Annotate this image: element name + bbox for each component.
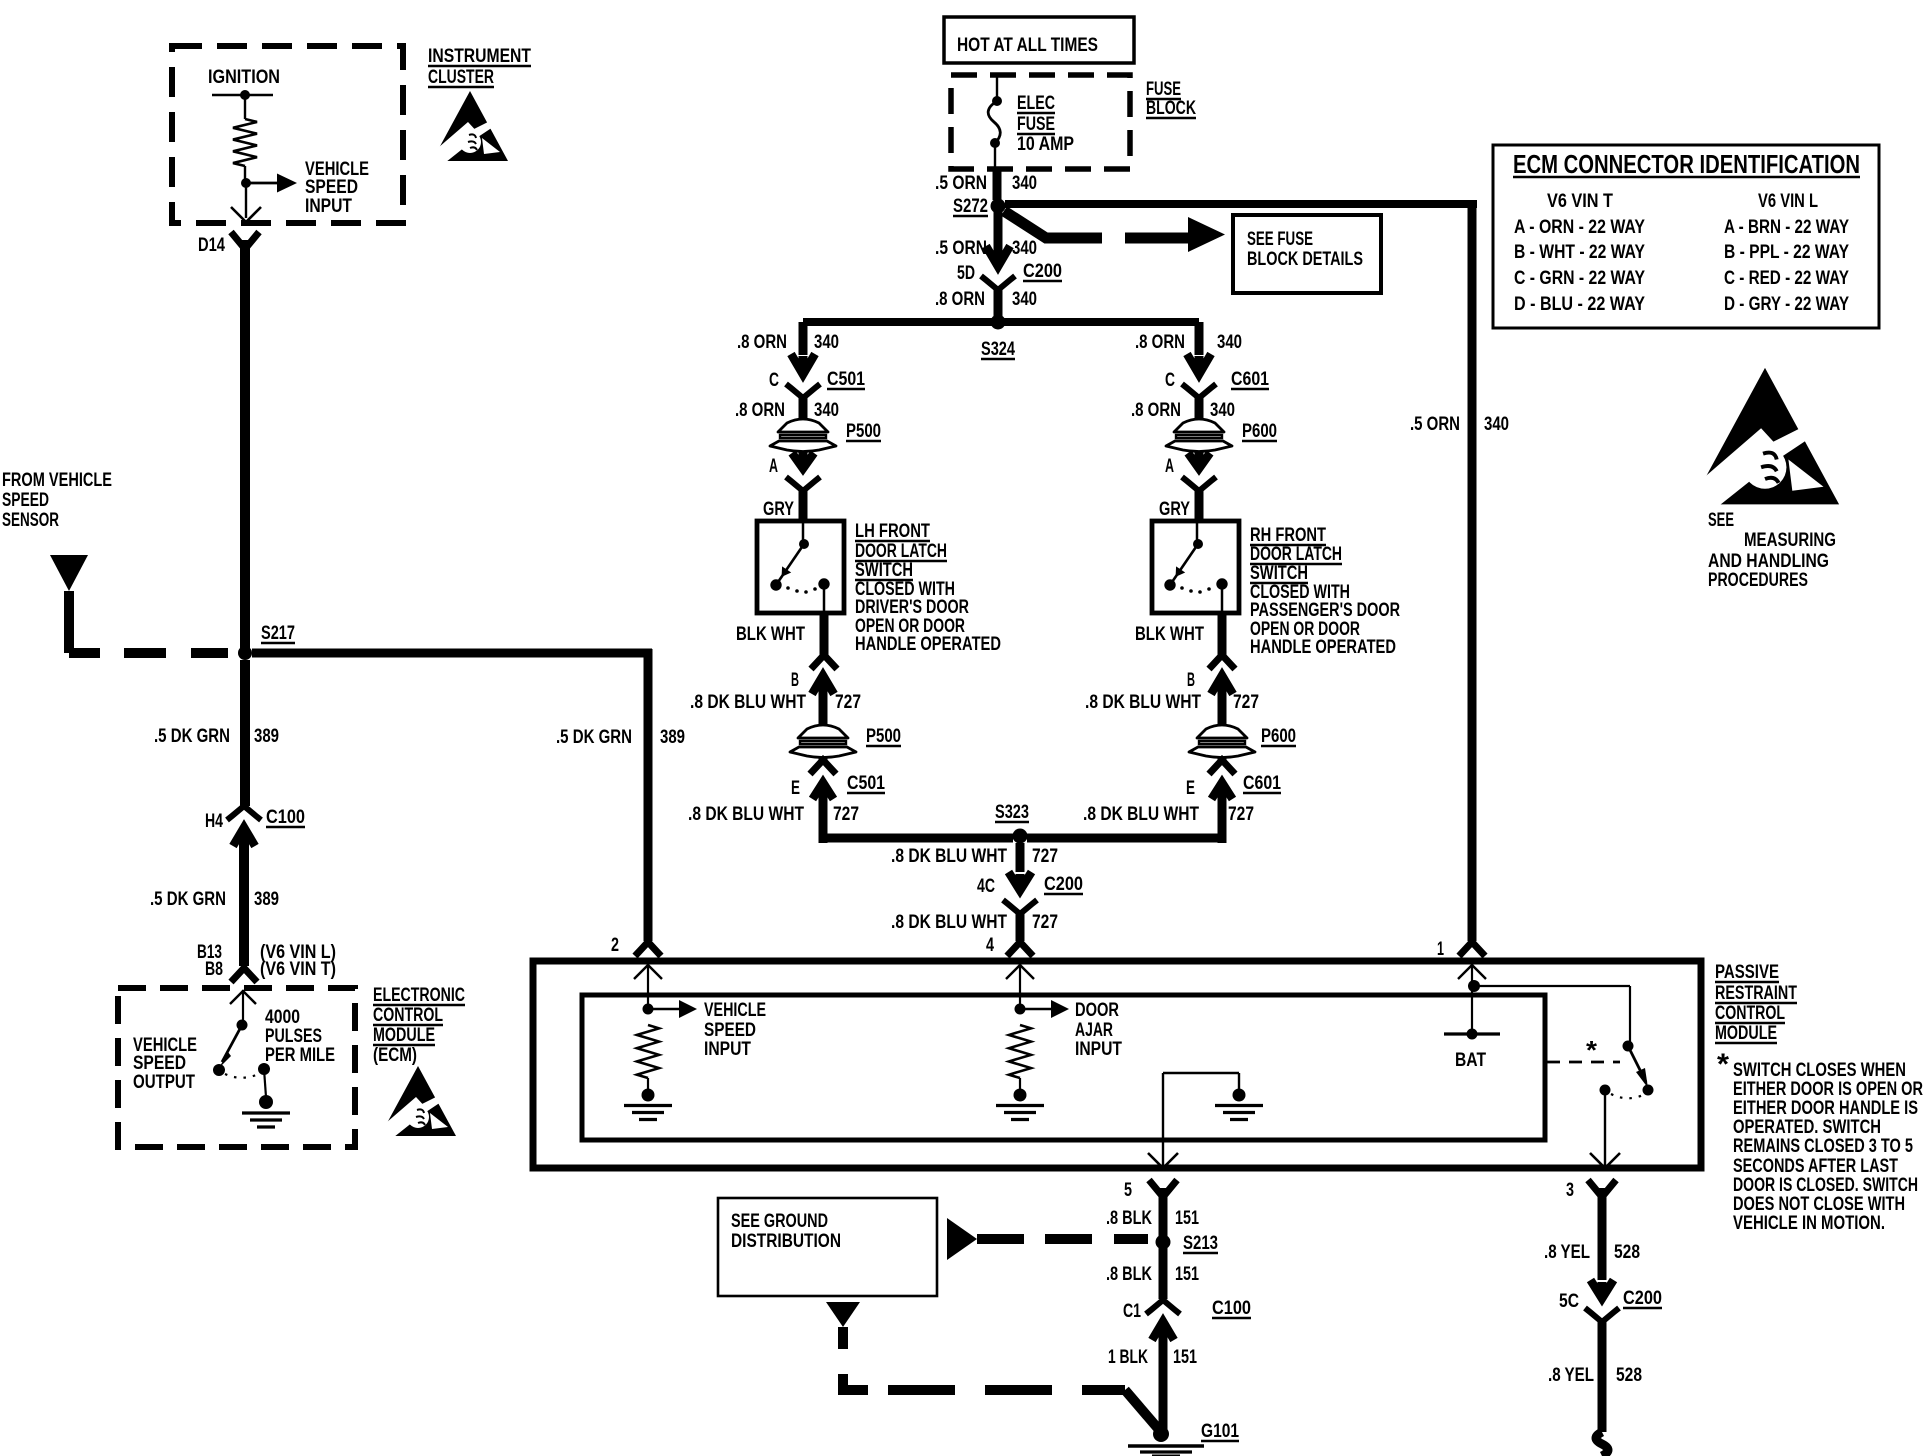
svg-text:PASSENGER'S DOOR: PASSENGER'S DOOR bbox=[1250, 600, 1400, 621]
svg-text:DOES NOT CLOSE WITH: DOES NOT CLOSE WITH bbox=[1733, 1194, 1905, 1215]
svg-text:GRY: GRY bbox=[763, 499, 794, 520]
svg-text:V6 VIN T: V6 VIN T bbox=[1547, 191, 1613, 212]
svg-text:BLOCK: BLOCK bbox=[1146, 98, 1196, 119]
svg-text:IGNITION: IGNITION bbox=[208, 67, 280, 88]
svg-text:C: C bbox=[1165, 370, 1175, 391]
svg-text:SEE: SEE bbox=[1708, 510, 1734, 531]
svg-text:FROM VEHICLE: FROM VEHICLE bbox=[2, 470, 112, 491]
svg-text:EITHER DOOR IS OPEN OR: EITHER DOOR IS OPEN OR bbox=[1733, 1079, 1923, 1100]
svg-text:LH FRONT: LH FRONT bbox=[855, 521, 930, 542]
svg-text:.5 ORN: .5 ORN bbox=[935, 238, 987, 259]
svg-text:P500: P500 bbox=[846, 421, 881, 442]
svg-text:ELECTRONIC: ELECTRONIC bbox=[373, 985, 465, 1006]
svg-text:DOOR IS CLOSED. SWITCH: DOOR IS CLOSED. SWITCH bbox=[1733, 1175, 1918, 1196]
svg-text:1 BLK: 1 BLK bbox=[1108, 1347, 1148, 1368]
svg-text:.8 ORN: .8 ORN bbox=[737, 332, 787, 353]
svg-text:389: 389 bbox=[254, 726, 279, 747]
svg-text:10 AMP: 10 AMP bbox=[1017, 134, 1074, 155]
svg-text:5D: 5D bbox=[957, 263, 975, 284]
svg-text:727: 727 bbox=[1032, 846, 1058, 867]
svg-text:5C: 5C bbox=[1559, 1291, 1579, 1312]
svg-text:C200: C200 bbox=[1044, 874, 1083, 895]
svg-text:SEE GROUND: SEE GROUND bbox=[731, 1211, 828, 1232]
svg-text:S217: S217 bbox=[261, 623, 295, 644]
svg-text:SPEED: SPEED bbox=[2, 490, 49, 511]
svg-text:727: 727 bbox=[833, 804, 859, 825]
svg-text:FUSE: FUSE bbox=[1146, 79, 1181, 100]
svg-text:DRIVER'S DOOR: DRIVER'S DOOR bbox=[855, 597, 969, 618]
svg-text:389: 389 bbox=[254, 889, 279, 910]
svg-text:SECONDS AFTER LAST: SECONDS AFTER LAST bbox=[1733, 1156, 1898, 1177]
svg-text:S323: S323 bbox=[995, 802, 1029, 823]
svg-text:EITHER DOOR HANDLE IS: EITHER DOOR HANDLE IS bbox=[1733, 1098, 1918, 1119]
svg-text:INPUT: INPUT bbox=[305, 196, 352, 217]
svg-text:.8 ORN: .8 ORN bbox=[1135, 332, 1185, 353]
svg-text:C200: C200 bbox=[1023, 261, 1062, 282]
svg-text:DOOR: DOOR bbox=[1075, 1000, 1119, 1021]
svg-text:A - BRN - 22 WAY: A - BRN - 22 WAY bbox=[1724, 217, 1849, 238]
svg-text:(V6 VIN T): (V6 VIN T) bbox=[260, 959, 336, 980]
svg-text:C - RED - 22 WAY: C - RED - 22 WAY bbox=[1724, 268, 1849, 289]
svg-text:340: 340 bbox=[1012, 289, 1037, 310]
svg-text:.5 DK GRN: .5 DK GRN bbox=[150, 889, 226, 910]
svg-text:E: E bbox=[1186, 778, 1195, 799]
svg-text:.8 YEL: .8 YEL bbox=[1544, 1242, 1590, 1263]
svg-text:HANDLE OPERATED: HANDLE OPERATED bbox=[855, 634, 1001, 655]
svg-text:.8 DK BLU WHT: .8 DK BLU WHT bbox=[1085, 692, 1201, 713]
svg-text:FUSE: FUSE bbox=[1017, 114, 1055, 135]
svg-text:.8 DK BLU WHT: .8 DK BLU WHT bbox=[891, 846, 1007, 867]
svg-text:SPEED: SPEED bbox=[704, 1020, 756, 1041]
svg-text:PULSES: PULSES bbox=[265, 1026, 322, 1047]
svg-text:SPEED: SPEED bbox=[305, 177, 358, 198]
svg-text:C - GRN - 22 WAY: C - GRN - 22 WAY bbox=[1514, 268, 1645, 289]
svg-text:.8 YEL: .8 YEL bbox=[1548, 1365, 1594, 1386]
svg-text:727: 727 bbox=[1032, 912, 1058, 933]
svg-text:RESTRAINT: RESTRAINT bbox=[1715, 983, 1797, 1004]
svg-text:SENSOR: SENSOR bbox=[2, 510, 59, 531]
svg-text:SWITCH: SWITCH bbox=[855, 560, 913, 581]
svg-text:VEHICLE IN MOTION.: VEHICLE IN MOTION. bbox=[1733, 1213, 1885, 1234]
svg-text:BLK WHT: BLK WHT bbox=[736, 624, 805, 645]
svg-text:ECM CONNECTOR IDENTIFICATION: ECM CONNECTOR IDENTIFICATION bbox=[1513, 149, 1860, 179]
svg-text:C100: C100 bbox=[266, 807, 305, 828]
svg-text:B: B bbox=[791, 670, 799, 691]
svg-text:C601: C601 bbox=[1231, 369, 1269, 390]
svg-text:C: C bbox=[769, 370, 779, 391]
svg-text:B - WHT - 22 WAY: B - WHT - 22 WAY bbox=[1514, 242, 1645, 263]
svg-text:340: 340 bbox=[814, 332, 839, 353]
svg-text:4: 4 bbox=[986, 935, 994, 956]
svg-text:D - GRY - 22 WAY: D - GRY - 22 WAY bbox=[1724, 294, 1849, 315]
svg-text:BLOCK DETAILS: BLOCK DETAILS bbox=[1247, 249, 1363, 270]
svg-text:4C: 4C bbox=[977, 876, 995, 897]
svg-text:5: 5 bbox=[1124, 1180, 1132, 1201]
svg-text:727: 727 bbox=[1233, 692, 1259, 713]
svg-text:528: 528 bbox=[1616, 1365, 1642, 1386]
svg-text:A - ORN - 22 WAY: A - ORN - 22 WAY bbox=[1514, 217, 1645, 238]
svg-text:.8 ORN: .8 ORN bbox=[735, 400, 785, 421]
svg-text:MODULE: MODULE bbox=[373, 1025, 435, 1046]
svg-text:.8 DK BLU WHT: .8 DK BLU WHT bbox=[891, 912, 1007, 933]
svg-text:VEHICLE: VEHICLE bbox=[704, 1000, 766, 1021]
svg-text:D14: D14 bbox=[198, 235, 225, 256]
svg-text:389: 389 bbox=[660, 727, 685, 748]
svg-text:AJAR: AJAR bbox=[1075, 1020, 1113, 1041]
svg-text:.5 DK GRN: .5 DK GRN bbox=[556, 727, 632, 748]
svg-text:S324: S324 bbox=[981, 339, 1015, 360]
svg-text:A: A bbox=[1165, 456, 1174, 477]
svg-text:727: 727 bbox=[1228, 804, 1254, 825]
svg-text:.5 DK GRN: .5 DK GRN bbox=[154, 726, 230, 747]
svg-text:B - PPL - 22 WAY: B - PPL - 22 WAY bbox=[1724, 242, 1849, 263]
svg-text:.8 BLK: .8 BLK bbox=[1106, 1264, 1152, 1285]
svg-text:SPEED: SPEED bbox=[133, 1053, 186, 1074]
svg-text:C501: C501 bbox=[827, 369, 865, 390]
svg-text:2: 2 bbox=[611, 935, 619, 956]
svg-text:*: * bbox=[1717, 1048, 1729, 1081]
svg-text:DISTRIBUTION: DISTRIBUTION bbox=[731, 1231, 841, 1252]
svg-text:151: 151 bbox=[1175, 1264, 1199, 1285]
svg-text:.8 BLK: .8 BLK bbox=[1106, 1208, 1152, 1229]
svg-text:HANDLE OPERATED: HANDLE OPERATED bbox=[1250, 637, 1396, 658]
svg-text:.8 DK BLU WHT: .8 DK BLU WHT bbox=[690, 692, 806, 713]
svg-text:.5 ORN: .5 ORN bbox=[935, 173, 987, 194]
svg-text:DOOR LATCH: DOOR LATCH bbox=[855, 541, 947, 562]
svg-text:151: 151 bbox=[1175, 1208, 1199, 1229]
svg-text:V6 VIN L: V6 VIN L bbox=[1758, 191, 1818, 212]
svg-text:C1: C1 bbox=[1123, 1301, 1141, 1322]
svg-text:.8 DK BLU WHT: .8 DK BLU WHT bbox=[688, 804, 804, 825]
svg-text:CONTROL: CONTROL bbox=[373, 1005, 443, 1026]
svg-text:D - BLU - 22 WAY: D - BLU - 22 WAY bbox=[1514, 294, 1645, 315]
svg-text:RH FRONT: RH FRONT bbox=[1250, 525, 1326, 546]
svg-text:OPERATED. SWITCH: OPERATED. SWITCH bbox=[1733, 1117, 1881, 1138]
svg-text:H4: H4 bbox=[205, 811, 223, 832]
svg-text:HOT AT ALL TIMES: HOT AT ALL TIMES bbox=[957, 35, 1098, 56]
svg-text:AND HANDLING: AND HANDLING bbox=[1708, 551, 1829, 572]
svg-text:SEE FUSE: SEE FUSE bbox=[1247, 229, 1313, 250]
svg-text:.8 ORN: .8 ORN bbox=[935, 289, 985, 310]
svg-text:727: 727 bbox=[835, 692, 861, 713]
svg-text:E: E bbox=[791, 778, 800, 799]
svg-text:P600: P600 bbox=[1261, 726, 1296, 747]
svg-text:P600: P600 bbox=[1242, 421, 1277, 442]
svg-text:3: 3 bbox=[1566, 1180, 1574, 1201]
svg-text:C501: C501 bbox=[847, 773, 885, 794]
svg-text:MODULE: MODULE bbox=[1715, 1023, 1777, 1044]
svg-text:.8 DK BLU WHT: .8 DK BLU WHT bbox=[1083, 804, 1199, 825]
svg-text:CONTROL: CONTROL bbox=[1715, 1003, 1785, 1024]
svg-text:340: 340 bbox=[1217, 332, 1242, 353]
svg-text:151: 151 bbox=[1173, 1347, 1197, 1368]
svg-text:SWITCH CLOSES WHEN: SWITCH CLOSES WHEN bbox=[1733, 1060, 1906, 1081]
svg-text:ELEC: ELEC bbox=[1017, 93, 1055, 114]
svg-text:.8 ORN: .8 ORN bbox=[1131, 400, 1181, 421]
svg-text:REMAINS CLOSED 3 TO 5: REMAINS CLOSED 3 TO 5 bbox=[1733, 1136, 1913, 1157]
svg-text:S272: S272 bbox=[953, 196, 988, 217]
svg-text:CLUSTER: CLUSTER bbox=[428, 67, 494, 88]
svg-text:C200: C200 bbox=[1623, 1288, 1662, 1309]
svg-text:(ECM): (ECM) bbox=[373, 1045, 417, 1066]
svg-text:PASSIVE: PASSIVE bbox=[1715, 962, 1779, 983]
svg-text:INSTRUMENT: INSTRUMENT bbox=[428, 46, 531, 67]
svg-text:*: * bbox=[1586, 1035, 1598, 1065]
svg-text:1: 1 bbox=[1437, 939, 1444, 960]
svg-text:B8: B8 bbox=[205, 959, 223, 980]
svg-text:B: B bbox=[1187, 670, 1195, 691]
svg-text:A: A bbox=[769, 456, 778, 477]
svg-text:PROCEDURES: PROCEDURES bbox=[1708, 570, 1808, 591]
svg-text:4000: 4000 bbox=[265, 1007, 300, 1028]
svg-text:340: 340 bbox=[1484, 414, 1509, 435]
svg-text:INPUT: INPUT bbox=[704, 1039, 751, 1060]
svg-text:PER MILE: PER MILE bbox=[265, 1045, 335, 1066]
svg-text:DOOR LATCH: DOOR LATCH bbox=[1250, 544, 1342, 565]
svg-text:C601: C601 bbox=[1243, 773, 1281, 794]
svg-text:528: 528 bbox=[1614, 1242, 1640, 1263]
svg-text:G101: G101 bbox=[1201, 1421, 1239, 1442]
svg-text:INPUT: INPUT bbox=[1075, 1039, 1122, 1060]
svg-text:340: 340 bbox=[1012, 238, 1037, 259]
svg-text:C100: C100 bbox=[1212, 1298, 1251, 1319]
svg-text:S213: S213 bbox=[1183, 1233, 1218, 1254]
svg-text:P500: P500 bbox=[866, 726, 901, 747]
svg-text:GRY: GRY bbox=[1159, 499, 1190, 520]
svg-text:SWITCH: SWITCH bbox=[1250, 563, 1308, 584]
svg-text:OUTPUT: OUTPUT bbox=[133, 1072, 195, 1093]
svg-text:340: 340 bbox=[1210, 400, 1235, 421]
svg-text:340: 340 bbox=[1012, 173, 1037, 194]
svg-text:340: 340 bbox=[814, 400, 839, 421]
svg-text:MEASURING: MEASURING bbox=[1744, 530, 1836, 551]
svg-text:.5 ORN: .5 ORN bbox=[1410, 414, 1460, 435]
svg-text:BLK WHT: BLK WHT bbox=[1135, 624, 1204, 645]
svg-text:BAT: BAT bbox=[1455, 1050, 1486, 1071]
